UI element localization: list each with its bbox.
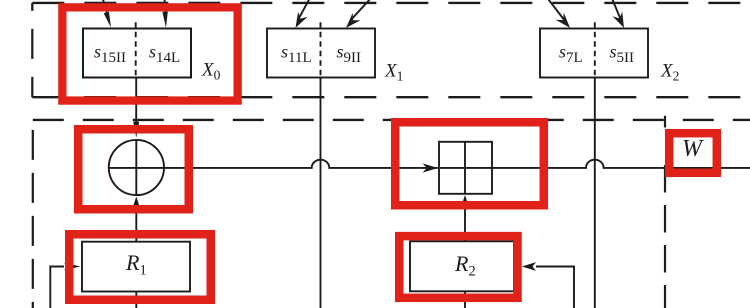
red highlight box around X0 (62, 7, 237, 100)
dashed box1 bottom edge (32, 96, 750, 98)
arrowhead R2 feedback (522, 262, 536, 271)
arrowhead into X1 right (346, 13, 361, 28)
register divider (464, 142, 466, 194)
xor cross horizontal (109, 167, 164, 169)
box X0 (83, 29, 191, 78)
svg-text:s15II: s15II (94, 42, 126, 67)
red highlight box around register (395, 122, 544, 205)
arrowhead into X1 left (296, 12, 308, 28)
arrow into X2 left cell (547, 0, 565, 21)
arrow into X0 left cell (103, 0, 109, 19)
dashed vertical net boundary right (664, 116, 666, 128)
xor cross vertical (135, 140, 137, 195)
wire R2 to register (464, 205, 466, 242)
svg-text:X2: X2 (660, 61, 679, 84)
wire X0 to xor (135, 78, 137, 126)
arrowhead R2 to register (461, 195, 470, 208)
dashed box2 top edge (33, 119, 750, 121)
dashed box2 left edge (32, 120, 34, 308)
box X2 (540, 29, 648, 78)
wire X2 down (594, 78, 596, 308)
svg-text:s9II: s9II (337, 42, 362, 67)
main horizontal wire with hops (164, 160, 750, 168)
svg-text:R1: R1 (125, 250, 147, 279)
red highlight box around R1 (69, 234, 211, 300)
svg-text:X1: X1 (384, 61, 403, 84)
arrowhead into X0 right (162, 12, 167, 28)
R1 feedback wire (50, 267, 64, 308)
arrowhead X0 to xor (133, 122, 139, 138)
wire xor to R1 (135, 206, 137, 242)
box X2 divider (594, 22, 596, 77)
dashed vertical net boundary right lower part (664, 165, 666, 308)
svg-text:s5II: s5II (610, 42, 635, 67)
register box (439, 142, 492, 194)
svg-text:R2: R2 (454, 251, 476, 280)
box X0 divider (135, 22, 137, 77)
red highlight box around W (669, 133, 717, 173)
dashed box1 left edge (31, 3, 33, 97)
xor circle (109, 140, 164, 195)
svg-text:s7L: s7L (559, 42, 583, 67)
arrow into X0 right cell (165, 0, 166, 18)
wire R1 down (135, 292, 137, 308)
svg-text:s14L: s14L (149, 42, 180, 67)
arrowhead into X2 left (556, 13, 570, 28)
red highlight box around xor (78, 129, 189, 209)
arrowhead R1 feedback (64, 263, 81, 270)
arrow into X2 right cell (611, 0, 620, 19)
arrowhead into X0 left (104, 12, 111, 28)
arrowhead into X2 right (613, 12, 625, 28)
svg-text:s11L: s11L (281, 42, 312, 67)
box X1 (267, 29, 375, 78)
svg-text:X0: X0 (201, 60, 221, 83)
R2 feedback wire (536, 267, 574, 308)
dashed box1 top edge (32, 2, 750, 4)
box X1 divider (320, 22, 322, 77)
wire R2 down (464, 291, 466, 308)
wire X1 down (320, 78, 322, 308)
arrow into X1 right cell (352, 0, 372, 19)
arrowhead into register left (423, 163, 439, 172)
red highlight box around R2 (399, 236, 517, 298)
arrowhead R1 to xor (132, 197, 141, 210)
box R1 (82, 242, 190, 292)
box R2 (410, 241, 514, 291)
svg-text:W: W (682, 136, 704, 162)
arrow into X1 left cell (299, 0, 311, 18)
